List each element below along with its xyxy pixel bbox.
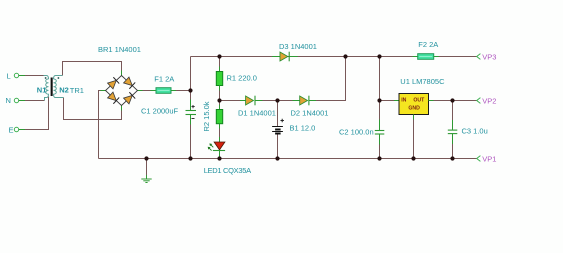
wire TR1 secondary top to bridge top vertex: [63, 62, 122, 76]
node U1 GND bottom: [411, 156, 415, 160]
svg-text:N: N: [6, 96, 11, 105]
capacitor C2 100.0n: [339, 120, 384, 145]
node C2 bottom: [377, 156, 381, 160]
resistor R2 15.0k: [202, 101, 223, 131]
fuse F1 2A: [151, 74, 177, 93]
node C2/U1 IN: [377, 98, 381, 102]
diode D3 1N4001: [272, 42, 317, 61]
svg-text:R2 15.0k: R2 15.0k: [202, 101, 211, 131]
wire U1 OUT to VP2: [429, 100, 477, 102]
svg-text:N1: N1: [37, 86, 47, 95]
terminal VP3: [477, 52, 497, 61]
node B1 top: [275, 98, 279, 102]
svg-text:BR1 1N4001: BR1 1N4001: [98, 45, 141, 54]
wire U1 GND to bottom rail: [413, 115, 415, 159]
regulator U1 LM7805C: [394, 77, 445, 120]
terminal VP2: [477, 96, 497, 105]
svg-text:C1 2000uF: C1 2000uF: [141, 106, 179, 115]
svg-text:F1 2A: F1 2A: [154, 74, 174, 83]
svg-text:R1 220.0: R1 220.0: [227, 74, 257, 83]
svg-text:C3 1.0u: C3 1.0u: [462, 126, 488, 135]
svg-text:D2 1N4001: D2 1N4001: [291, 109, 329, 118]
transformer TR1: [37, 76, 84, 101]
node LED bottom: [217, 156, 221, 160]
wire bridge left vertex to bottom rail: [99, 91, 101, 159]
bridge rectifier BR1 1N4001: [98, 45, 143, 111]
capacitor C3 1.0u: [448, 120, 488, 144]
svg-text:C2 100.0n: C2 100.0n: [339, 127, 374, 136]
svg-text:VP1: VP1: [482, 154, 496, 163]
node ground: [144, 156, 148, 160]
node C1 bottom: [188, 156, 192, 160]
svg-text:GND: GND: [408, 106, 420, 112]
bridge diode bottom-left: [107, 92, 119, 104]
svg-text:OUT: OUT: [413, 97, 425, 103]
bridge diode top-right: [123, 77, 135, 89]
terminal N: [6, 96, 45, 105]
svg-text:TR1: TR1: [70, 86, 84, 95]
svg-text:B1 12.0: B1 12.0: [290, 123, 316, 132]
svg-text:E: E: [9, 126, 14, 135]
svg-text:F2 2A: F2 2A: [418, 40, 438, 49]
diode D1 1N4001: [238, 96, 276, 118]
ground: [141, 175, 151, 183]
node F1/C1: [188, 88, 192, 92]
terminal VP1: [477, 154, 497, 163]
svg-text:U1 LM7805C: U1 LM7805C: [400, 77, 445, 86]
bridge diode top-left: [107, 77, 119, 89]
svg-text:VP3: VP3: [482, 52, 496, 61]
svg-text:VP2: VP2: [482, 96, 496, 105]
node C3 bottom: [450, 156, 454, 160]
wire U1 IN: [380, 100, 400, 102]
wire C3 column: [452, 101, 454, 159]
diode D2 1N4001: [291, 96, 329, 118]
terminal E: [9, 97, 49, 135]
node D2/top rail: [343, 54, 347, 58]
capacitor C1 2000uF: [141, 100, 196, 125]
LED LED1 CQX35A: [204, 137, 251, 175]
svg-text:N2: N2: [59, 86, 69, 95]
resistor R1 220.0: [216, 67, 257, 91]
svg-text:L: L: [7, 72, 11, 81]
fuse F2 2A: [413, 40, 439, 59]
wire D2 up to top rail: [309, 57, 346, 101]
bridge diode bottom-right: [123, 92, 135, 104]
node B1 bottom: [275, 156, 279, 160]
node R1/R2/D1: [217, 98, 221, 102]
wire C2 column: [379, 57, 381, 159]
svg-text:D1 1N4001: D1 1N4001: [238, 109, 276, 118]
svg-text:D3 1N4001: D3 1N4001: [279, 42, 317, 51]
svg-text:IN: IN: [401, 97, 406, 103]
wire D1 to B1 node to D2: [255, 100, 300, 102]
wire TR1 secondary bottom to bridge bottom vertex: [64, 98, 122, 120]
battery B1 12.0: [272, 119, 315, 134]
wire bottom rail: [99, 158, 477, 160]
wire F1 to C1 node: [171, 90, 191, 92]
wire bridge right vertex to fuse F1: [143, 90, 157, 92]
wire R1 branch: [219, 57, 221, 101]
svg-text:LED1 CQX35A: LED1 CQX35A: [204, 166, 251, 175]
wire D1 row: [220, 100, 246, 102]
wire B1 column: [277, 101, 279, 159]
terminal L: [7, 72, 44, 81]
wire C1 column: [190, 57, 192, 159]
wire top rail: [191, 56, 477, 58]
wire R2 to LED: [219, 101, 221, 143]
wire ground stem: [146, 159, 148, 176]
node C3 top: [450, 98, 454, 102]
node R1 top: [217, 54, 221, 58]
node C2 top: [377, 54, 381, 58]
